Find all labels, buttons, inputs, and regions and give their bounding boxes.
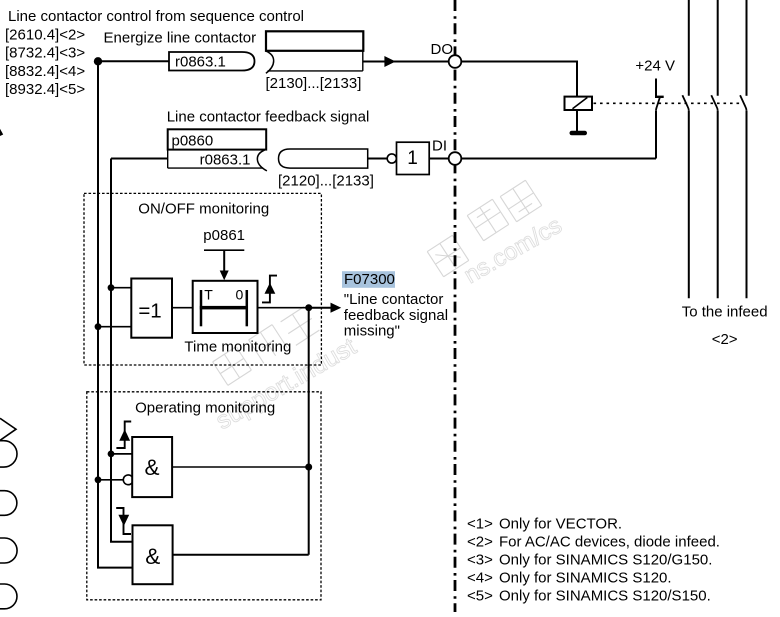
ON/OFF monitoring dashed box [84,193,321,365]
cropped connector stub 1 [0,441,17,467]
AND gate 1 [132,437,172,497]
cropped connector stub 2 [0,491,17,516]
terminal DO [449,55,462,68]
svg-text:Only for SINAMICS S120.: Only for SINAMICS S120. [499,569,672,586]
wire trunk2 to gate1 input a [111,453,132,455]
wire gate1 output [172,466,309,468]
phase line 3 with contact [740,0,746,298]
rising edge symbol at timer output [262,276,277,303]
svg-text:1: 1 [407,148,418,169]
wire DO to relay [461,62,577,97]
wire trunk1 vertical [98,61,133,567]
wire trunk2 vertical [111,159,133,542]
parameter box p0860 [168,129,267,149]
svg-text:Energize line contactor: Energize line contactor [104,29,257,46]
svg-text:<2>: <2> [467,534,493,551]
wire fault junction down [308,308,310,555]
svg-text:r0863.1: r0863.1 [175,54,226,71]
svg-text:+24 V: +24 V [635,57,675,74]
ground [570,131,588,136]
svg-text:Time monitoring: Time monitoring [184,339,291,356]
wire gate2 output [173,554,309,556]
svg-text:"Line contactor: "Line contactor [344,291,444,308]
footnotes [467,516,720,605]
watermark cluster B [211,307,361,436]
svg-text:feedback signal: feedback signal [344,307,448,324]
cropped connector stub 4 [0,584,17,609]
wire timer output to junction [258,307,309,309]
wire connector to inverter [368,158,388,160]
svg-text:Only for VECTOR.: Only for VECTOR. [499,516,622,533]
svg-text:<1>: <1> [467,516,493,533]
aux contact of line contactor [655,79,664,159]
wire =1 to timer [172,307,193,309]
junction dot trunk2 to gate1 [108,451,115,458]
svg-text:[2120]...[2133]: [2120]...[2133] [278,172,374,189]
cropped connector stub 3 [0,538,17,563]
svg-text:[8832.4]<4>: [8832.4]<4> [5,63,85,80]
p0861 tap bar [204,249,244,251]
svg-text:0: 0 [236,287,244,303]
wire connector to DO with arrow [363,61,449,63]
binector source r0863.1 [169,52,255,71]
svg-text:[2610.4]<2>: [2610.4]<2> [5,26,85,43]
svg-text:[8732.4]<3>: [8732.4]<3> [5,45,85,62]
timer T0 box [193,281,258,333]
svg-text:=1: =1 [138,299,161,322]
phase line 2 with contact [711,0,717,298]
svg-text:<2>: <2> [712,331,738,348]
svg-text:[2130]...[2133]: [2130]...[2133] [266,75,362,92]
svg-text:F07300: F07300 [344,271,395,288]
wire trunk2 to =1 input a [111,287,131,289]
XOR gate =1 [131,279,172,338]
svg-text:r0863.1: r0863.1 [200,152,251,169]
svg-text:Only for SINAMICS S120/G150.: Only for SINAMICS S120/G150. [499,552,712,569]
wire trunk1 to gate1 bubble [98,479,123,481]
svg-text:Only for SINAMICS S120/S150.: Only for SINAMICS S120/S150. [499,587,711,604]
svg-text:DI: DI [432,137,447,154]
wire junction to r0863.1 [98,60,169,62]
svg-text:ON/OFF monitoring: ON/OFF monitoring [138,201,269,218]
connector to sheets [2130]...[2133] [266,31,364,92]
logic box 1 [397,142,430,174]
svg-text:p0860: p0860 [172,132,214,149]
svg-text:Operating monitoring: Operating monitoring [135,400,275,417]
svg-text:&: & [145,544,160,569]
cropped chevron symbol at left margin [0,418,16,440]
cropped arrow at left margin [0,129,3,136]
fault text lines [344,291,448,340]
watermark cluster A [427,180,566,289]
arrow to F07300 [309,307,332,309]
svg-text:&: & [144,455,159,480]
svg-text:T: T [204,287,213,303]
svg-text:<5>: <5> [467,587,493,604]
inverter bubble gate1 [123,475,133,485]
wire p0860 row to trunk2 [111,158,168,160]
fault code F07300 highlighted [342,271,395,288]
svg-text:Line contactor control from se: Line contactor control from sequence con… [8,8,304,25]
junction dot gate1 output [305,464,312,471]
inverter bubble [387,154,396,163]
falling edge symbol gate2 [116,508,131,534]
node ref [2610.4]<2> list [5,26,85,98]
svg-text:missing": missing" [344,323,400,340]
svg-text:<4>: <4> [467,569,493,586]
junction dot fault output [305,304,312,311]
svg-text:<3>: <3> [467,552,493,569]
wire trunk1 to =1 input b [98,326,131,328]
junction dot trunk2 to =1 [108,284,115,291]
wire relay to ground [576,110,578,131]
junction dot trunk1 to =1 [95,323,102,330]
svg-text:p0861: p0861 [203,227,245,244]
mechanical linkage dotted line [594,102,741,104]
phase line 1 with contact [682,0,688,298]
connector from sheets [2120]...[2133] [278,149,374,189]
svg-text:DO: DO [431,41,454,58]
relay coil K [565,97,593,110]
terminal DI [449,152,462,165]
junction dot trunk1 to gate1 [95,476,102,483]
arrowhead on DO wire [384,56,395,67]
wire DI to +24V contact [461,158,656,160]
junction dot at trunk top [94,57,102,65]
dash-dot interface line [454,0,457,612]
AND gate 2 [133,525,173,584]
svg-text:Line contactor feedback signal: Line contactor feedback signal [167,108,370,125]
svg-text:[8932.4]<5>: [8932.4]<5> [5,81,85,98]
p0861 arrow into timer [223,250,225,272]
wire 1-box to DI [429,158,449,160]
svg-text:For AC/AC devices, diode infee: For AC/AC devices, diode infeed. [499,534,720,551]
rising edge symbol gate1 [116,422,131,449]
binector default r0863.1 row [168,150,267,171]
svg-text:To the infeed: To the infeed [682,304,768,321]
Operating monitoring dashed box [87,392,321,600]
